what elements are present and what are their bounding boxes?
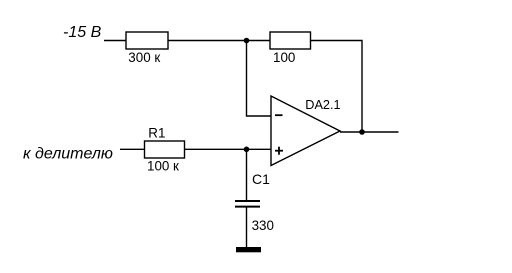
wire	[104, 40, 126, 42]
svg-text:к делителю: к делителю	[23, 145, 113, 162]
wire	[246, 208, 248, 248]
wire	[311, 41, 363, 133]
svg-text:R1: R1	[148, 126, 165, 141]
svg-text:300 к: 300 к	[128, 50, 160, 65]
op-amp non-inverting input plus	[275, 150, 283, 152]
op-amp DA2.1	[271, 96, 340, 166]
output wire	[340, 131, 399, 133]
svg-text:100: 100	[273, 50, 295, 65]
svg-text:C1: C1	[252, 171, 270, 187]
resistor R1	[145, 141, 185, 158]
wire	[246, 149, 248, 200]
capacitor C1	[235, 200, 260, 202]
svg-text:330: 330	[252, 218, 274, 233]
wire	[120, 148, 145, 150]
ground	[236, 247, 261, 252]
wire	[185, 148, 272, 150]
node junction	[359, 129, 365, 135]
svg-text:-15 В: -15 В	[63, 24, 102, 41]
svg-text:100 к: 100 к	[147, 158, 179, 173]
op-amp inverting input minus	[275, 114, 283, 116]
node junction	[244, 38, 250, 44]
node junction	[244, 147, 250, 153]
wire	[168, 40, 270, 42]
svg-text:DA2.1: DA2.1	[305, 98, 340, 112]
wire	[247, 41, 272, 117]
resistor 300k	[126, 32, 168, 49]
resistor 100	[270, 32, 311, 49]
